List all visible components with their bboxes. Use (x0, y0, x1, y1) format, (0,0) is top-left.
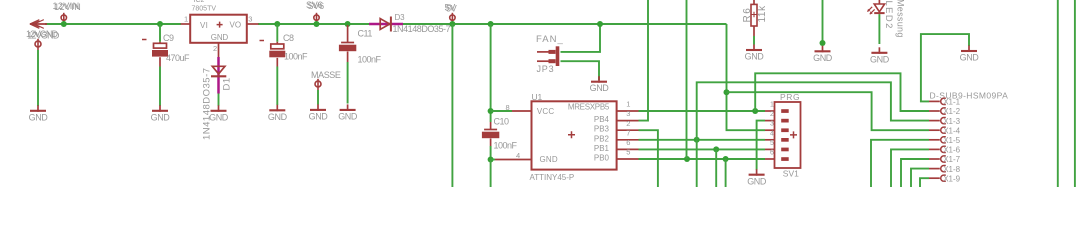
pin 6 SV1 (765, 158, 774, 160)
svg-text:8: 8 (506, 103, 510, 112)
wire 12VGND to ground (37, 50, 39, 106)
svg-text:ATTINY45-P: ATTINY45-P (530, 173, 575, 182)
svg-text:VI: VI (200, 21, 208, 30)
pin 4 SV1 (765, 139, 774, 141)
ground GND top right (968, 46, 970, 53)
junction dot SV6 (314, 21, 320, 27)
ground GND under LED2 (878, 47, 880, 54)
wire net PB2 pin7 to SV1 pin4 (639, 139, 766, 141)
svg-text:4: 4 (770, 130, 774, 137)
svg-text:3: 3 (626, 109, 630, 118)
pin X1-8 (929, 168, 940, 170)
wire D1 to ground (218, 94, 220, 106)
svg-text:PB2: PB2 (594, 134, 610, 143)
svg-text:C10: C10 (494, 116, 510, 126)
wire vertical to GND mid (822, 0, 824, 43)
led LED2 (878, 0, 880, 4)
svg-text:GND: GND (590, 83, 610, 93)
ground GND under R6 (753, 45, 755, 52)
svg-text:7: 7 (626, 128, 630, 137)
pin 2 U1 (617, 129, 639, 131)
pin X1-1 (929, 100, 940, 102)
junction dot JP3 rail (597, 21, 603, 27)
wire X1-9 feeder from bottom (920, 178, 929, 187)
svg-text:12VGND: 12VGND (27, 30, 60, 40)
wire X1-1 to GND top right (921, 34, 969, 101)
svg-text:6: 6 (770, 150, 774, 157)
ground GND under SV1 (756, 169, 758, 176)
svg-text:GND: GND (745, 52, 765, 62)
wire C10 to GND row (490, 146, 492, 160)
svg-text:PB4: PB4 (594, 115, 610, 124)
svg-text:1: 1 (184, 14, 188, 23)
svg-text:FAN_: FAN_ (536, 34, 564, 45)
diode D1 (212, 66, 225, 74)
svg-text:7805TV: 7805TV (192, 6, 217, 13)
wire vertical PB2 to bottom edge (696, 140, 698, 187)
wire X1-7 feeder from bottom (901, 159, 929, 187)
capacitor C8 (276, 42, 278, 44)
svg-text:X1-4: X1-4 (943, 126, 960, 135)
ground GND under C9 (159, 105, 161, 112)
wire X1-6 feeder from bottom (891, 149, 929, 187)
svg-text:100nF: 100nF (358, 55, 382, 65)
svg-text:GND: GND (209, 113, 229, 123)
svg-text:4: 4 (516, 151, 520, 160)
svg-text:SV1: SV1 (783, 169, 799, 179)
svg-text:3: 3 (770, 121, 774, 128)
capacitor C10 (490, 122, 492, 130)
pin 2 IC2 (218, 43, 220, 57)
svg-text:PB1: PB1 (594, 144, 610, 153)
svg-text:X1-9: X1-9 (943, 174, 960, 183)
pin 2 SV1 (765, 120, 774, 122)
svg-text:1N4148DO35-7: 1N4148DO35-7 (393, 24, 451, 34)
junction dot PB2 node (694, 137, 700, 143)
junction dot VCC node (488, 108, 494, 114)
wire net PB0 pin5 to SV1 pin6 (639, 158, 766, 160)
wire overlap segment D3 (magenta) (369, 23, 403, 26)
wire GND vertical to bottom edge (490, 160, 492, 188)
supply pin SV6 (314, 15, 319, 20)
pin X1-3 (929, 120, 940, 122)
svg-text:IC2: IC2 (194, 0, 205, 4)
wire H1 RESET to X1-2 (755, 73, 929, 111)
ground GND far left (37, 105, 39, 112)
wire C8 top (276, 24, 278, 42)
svg-text:GND: GND (747, 176, 767, 186)
svg-text:6: 6 (626, 138, 630, 147)
svg-text:JP3: JP3 (537, 64, 555, 74)
svg-text:5V: 5V (446, 4, 457, 14)
pin 3 SV1 (765, 129, 774, 131)
pin 8 U1 VCC (512, 110, 532, 112)
wire 5V vertical to bottom edge (451, 24, 453, 187)
wire vertical PB0 from top edge (686, 0, 688, 159)
svg-text:100nF: 100nF (494, 140, 518, 150)
junction dot PB0 node A (684, 156, 690, 162)
ground GND mid (822, 46, 824, 53)
pin X1-4 (929, 129, 940, 131)
pin 1 IC2 (181, 23, 191, 25)
svg-text:Messung: Messung (895, 0, 905, 38)
junction dot RESET node (752, 108, 758, 114)
wire SV1 GND pin2 branch (757, 121, 765, 170)
wire VCC to pin 8 (491, 110, 512, 112)
svg-text:GND: GND (268, 112, 288, 122)
diode D3 (380, 19, 390, 30)
pin 3 U1 (617, 120, 639, 122)
ground GND under D1 (218, 105, 220, 112)
svg-text:X1-5: X1-5 (943, 136, 960, 145)
svg-text:VCC: VCC (537, 107, 555, 116)
svg-text:PB0: PB0 (594, 154, 610, 163)
pin 4 U1 GND (495, 159, 532, 161)
junction dot C8 top (274, 21, 280, 27)
svg-text:5: 5 (626, 148, 630, 157)
svg-text:X1-1: X1-1 (943, 98, 960, 107)
pin 1 U1 (617, 110, 639, 112)
svg-text:GND: GND (540, 155, 558, 164)
svg-text:GND: GND (211, 33, 229, 42)
svg-text:MRESXPB5: MRESXPB5 (568, 102, 610, 111)
wire C9 bottom (159, 67, 161, 106)
ground GND under C8 (276, 105, 278, 112)
junction dot C10 rail (488, 21, 494, 27)
svg-text:LED2: LED2 (883, 1, 894, 30)
wire right vertical A (1057, 0, 1059, 187)
wire C8 bottom (276, 67, 278, 106)
junction dot PB1 node (713, 146, 719, 152)
svg-text:R6: R6 (742, 7, 753, 23)
junction dot GND node (488, 157, 494, 163)
svg-text:PRG: PRG (780, 92, 800, 102)
wire C9 top (159, 24, 161, 42)
pin arrows 12VIN connector (30, 23, 47, 25)
svg-text:2: 2 (213, 44, 217, 53)
wire net PB4 pin2 down to bottom edge (639, 130, 658, 187)
wire 12V rail left segment (45, 23, 181, 25)
pin X1-7 (929, 158, 940, 160)
svg-text:5: 5 (770, 140, 774, 147)
svg-text:X1-3: X1-3 (943, 117, 960, 126)
wire H3 5V to X1-4 (727, 92, 930, 130)
ground GND under JP3 (598, 76, 600, 83)
svg-text:1: 1 (770, 102, 774, 109)
wire X1-8 feeder from bottom (911, 169, 929, 187)
svg-text:C9: C9 (163, 33, 174, 43)
svg-text:100nF: 100nF (284, 52, 308, 62)
wire MASSE to ground (317, 90, 319, 105)
svg-text:GND: GND (151, 113, 171, 123)
resistor R6 (753, 0, 755, 4)
svg-text:2: 2 (770, 111, 774, 118)
svg-text:2: 2 (626, 119, 630, 128)
svg-text:X1-7: X1-7 (943, 155, 960, 164)
wire C11 bottom (347, 62, 349, 104)
svg-text:GND: GND (29, 113, 49, 123)
junction dot C9 top (157, 21, 163, 27)
wire JP3 pin2 to ground (561, 61, 600, 80)
svg-text:VO: VO (230, 20, 242, 29)
wire vertical PB1 to bottom edge (715, 149, 717, 187)
ground GND under C11 (347, 104, 349, 111)
svg-text:470uF: 470uF (166, 53, 190, 63)
svg-text:3: 3 (248, 14, 252, 23)
supply pin 12VIN (61, 15, 66, 20)
pin X1-6 (929, 148, 940, 150)
svg-text:U1: U1 (532, 92, 543, 102)
svg-text:12VIN: 12VIN (54, 2, 81, 12)
capacitor C11 (347, 25, 349, 43)
wire right vertical B (1074, 0, 1076, 187)
svg-text:X1-6: X1-6 (943, 146, 960, 155)
junction dot 5V (449, 21, 455, 27)
pin 12VGND connector (35, 41, 41, 47)
wire GND to pin 4 (491, 159, 495, 161)
svg-text:GND: GND (960, 53, 980, 63)
pin X1-9 (929, 177, 940, 179)
wire VCC vertical (490, 24, 492, 122)
svg-text:D3: D3 (395, 13, 406, 22)
wire R6 to ground (753, 36, 755, 45)
junction dot GND mid (820, 40, 826, 46)
svg-text:C11: C11 (358, 29, 373, 39)
pin X1-2 (929, 110, 940, 112)
svg-text:MASSE: MASSE (311, 70, 341, 80)
wire X1-5 feeder from bottom (871, 140, 929, 187)
svg-text:SV6: SV6 (308, 1, 325, 11)
supply pin 5V (450, 15, 455, 20)
wire vertical PB0 to bottom edge (725, 159, 727, 187)
wire net PB1 pin6 to SV1 pin5 (639, 148, 766, 150)
svg-text:GND: GND (870, 55, 890, 65)
svg-text:D1: D1 (222, 77, 233, 90)
svg-text:GND: GND (309, 112, 329, 122)
pin 6 U1 (617, 148, 639, 150)
junction dot 12VIN (61, 21, 67, 27)
svg-text:X1-2: X1-2 (943, 107, 960, 116)
pin 1 SV1 (765, 110, 774, 112)
ground GND under MASSE (317, 104, 319, 111)
svg-text:GND: GND (338, 112, 358, 122)
junction dot 5V branch (724, 89, 730, 95)
pin 5 U1 (617, 158, 639, 160)
wire LED2 to ground (878, 14, 880, 44)
junction dot PB0 node B (723, 156, 729, 162)
wire JP3 pin1 to rail (561, 24, 601, 52)
capacitor C9 (159, 42, 161, 44)
svg-text:X1-8: X1-8 (943, 165, 960, 174)
pin 3 IC2 (247, 23, 259, 25)
wire net PB3 pin3 up to top edge (639, 0, 649, 121)
wire net RESET pin1 to SV1 pin1 (639, 110, 766, 112)
wire 5V rail corner down to SV1 pin3 (727, 24, 766, 130)
pin 5 SV1 (765, 148, 774, 150)
svg-text:1N4148DO35-7: 1N4148DO35-7 (202, 67, 213, 140)
wire H2 PB2 to X1-3 (697, 82, 929, 140)
junction dot C11 top (345, 21, 351, 27)
svg-text:GND: GND (813, 53, 833, 63)
svg-text:1: 1 (626, 100, 630, 109)
svg-text:11k: 11k (757, 5, 768, 23)
wire overlap segment D1 (magenta) (217, 57, 220, 94)
svg-text:PB3: PB3 (594, 125, 610, 134)
voltage regulator IC2 7805TV (190, 15, 247, 43)
wire 5V rail right segment (402, 23, 727, 25)
pin X1-5 (929, 139, 940, 141)
microcontroller U1 ATTINY45-P (532, 101, 617, 169)
pin 7 U1 (617, 139, 639, 141)
wire 5V rail middle segment (258, 23, 369, 25)
svg-text:C8: C8 (283, 33, 294, 43)
